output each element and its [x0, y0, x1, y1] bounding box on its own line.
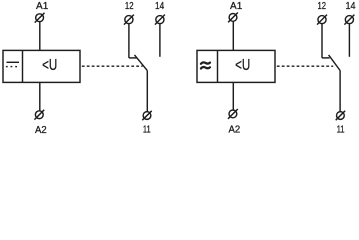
terminal A2 (left relay): [34, 110, 44, 120]
terminal 11 (right contact): [336, 111, 345, 120]
contact blade (left changeover): [135, 55, 148, 71]
fixed contact foot 12 (right): [322, 57, 330, 59]
wire coil to A2 (left): [39, 82, 41, 110]
wire 14 (right): [348, 24, 350, 57]
relay coil box (left): [3, 50, 80, 82]
wire A1 to coil (right): [232, 21, 234, 50]
mechanical link dashed (right): [277, 65, 333, 67]
terminal A1 (right relay): [228, 13, 238, 23]
wire 11 (left): [146, 71, 148, 112]
wire A1 to coil (left): [39, 22, 41, 51]
terminal 14 (right contact): [344, 15, 354, 25]
AC supply symbol (approx equals): [201, 62, 210, 68]
svg-text:A2: A2: [228, 124, 240, 135]
coil box divider (left): [22, 50, 24, 82]
svg-text:12: 12: [318, 1, 327, 12]
terminal 12 (left contact): [124, 15, 134, 25]
wire 14 (left): [159, 24, 161, 57]
coil box divider (right): [217, 50, 219, 82]
mechanical link dashed (left): [82, 65, 143, 67]
svg-text:<U: <U: [235, 57, 250, 74]
svg-text:14: 14: [346, 1, 356, 12]
DC supply symbol: [6, 62, 19, 67]
svg-text:A1: A1: [230, 1, 243, 12]
svg-text:<U: <U: [42, 57, 57, 74]
svg-text:12: 12: [125, 1, 134, 12]
fixed contact foot 12 (left): [129, 57, 137, 59]
terminal 14 (left contact): [155, 15, 165, 25]
wire 12 (right): [321, 24, 323, 58]
terminal 12 (right contact): [317, 15, 327, 25]
wire 11 (right): [339, 71, 341, 112]
svg-text:11: 11: [143, 124, 151, 135]
svg-text:14: 14: [155, 1, 164, 12]
terminal A1 (left relay): [35, 13, 45, 23]
terminal 11 (left contact): [142, 111, 151, 120]
svg-text:A1: A1: [36, 1, 49, 12]
svg-text:11: 11: [337, 124, 345, 135]
svg-text:A2: A2: [35, 125, 47, 135]
wire coil to A2 (right): [232, 82, 234, 110]
wire 12 (left): [128, 24, 130, 58]
contact blade (right changeover): [329, 55, 341, 71]
relay coil box (right): [197, 50, 275, 82]
terminal A2 (right relay): [228, 109, 238, 119]
